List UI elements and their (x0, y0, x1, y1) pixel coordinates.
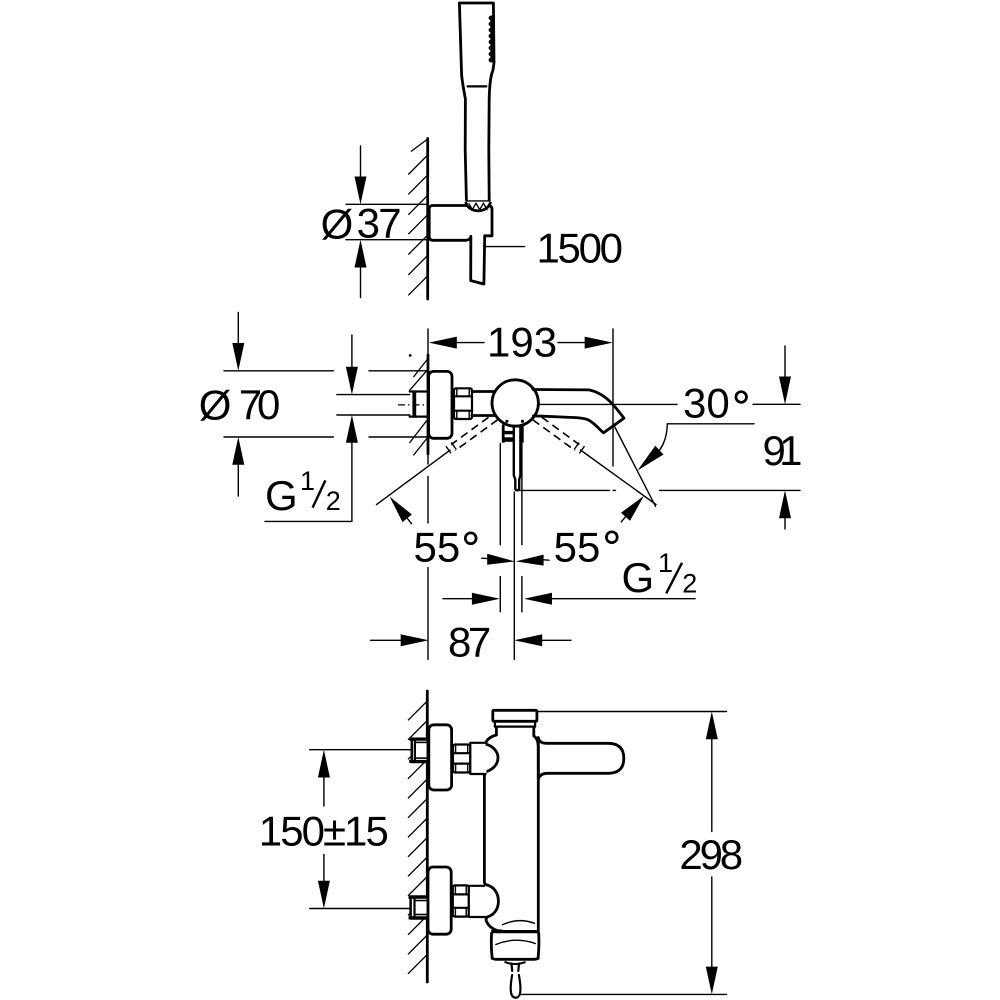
handle lever (514, 426, 521, 490)
svg-text:30: 30 (683, 380, 730, 427)
svg-text:70: 70 (239, 381, 280, 428)
lower adapter (469, 886, 487, 917)
dimension 150±15 extension lines (310, 749, 417, 751)
svg-text:1: 1 (300, 466, 315, 496)
svg-text:Ø: Ø (199, 382, 232, 429)
lower supply nut (411, 897, 428, 919)
svg-text:1500: 1500 (537, 225, 624, 272)
drip nipple (510, 964, 513, 971)
wall (top figure) (426, 139, 429, 300)
hand shower connector bulge (467, 201, 490, 212)
svg-text:G: G (265, 472, 298, 519)
svg-text:91: 91 (763, 427, 803, 474)
55-degree arc arrow (right) (621, 496, 644, 521)
svg-text:55: 55 (414, 524, 461, 571)
cartridge housing circle (492, 380, 538, 426)
55-degree reference line (right) (581, 450, 657, 505)
svg-text:2: 2 (682, 569, 697, 599)
handle axis extension line (513, 492, 515, 660)
svg-text:2: 2 (326, 486, 341, 516)
rotated handle silhouette (right, dashed) (533, 417, 580, 450)
dimension Ø70 extension lines (224, 370, 333, 372)
body shading arcs (503, 921, 535, 925)
dimension 91 arrows (784, 346, 786, 377)
dimension Ø37 extension lines (346, 203, 427, 205)
upper adapter (470, 743, 486, 774)
rotated handle silhouette (left, dashed) (451, 417, 498, 450)
outlet extension lines (499, 444, 501, 545)
connection nut (454, 388, 472, 419)
G1/2 inlet arrows (351, 335, 353, 367)
wall hatching (bottom figure) (408, 701, 427, 974)
dimension 87 (371, 639, 401, 641)
svg-text:37: 37 (357, 200, 402, 247)
upper escutcheon (429, 725, 452, 790)
dimension 91 extension lines (539, 403, 678, 405)
escutcheon (middle figure) (429, 371, 452, 438)
193 right extension line (612, 329, 614, 466)
svg-text:87: 87 (448, 619, 491, 666)
wall hatching (middle figure) (409, 359, 428, 456)
lever (side view) (538, 738, 624, 780)
svg-text:150±15: 150±15 (259, 808, 389, 855)
hand shower body (459, 3, 494, 200)
30-degree leader with arrow (667, 423, 754, 425)
svg-text:G: G (622, 554, 655, 601)
wall hatching (top figure) (408, 139, 427, 295)
G1/2 inlet extension lines (337, 394, 410, 396)
dimension 150±15 arrows (318, 750, 330, 778)
supply pipe behind wall (410, 390, 429, 392)
svg-text:193: 193 (487, 319, 557, 366)
wall extension line (193 / 87) (427, 329, 429, 356)
stray dot (409, 354, 412, 357)
svg-text:298: 298 (679, 831, 743, 878)
lower escutcheon (428, 867, 451, 934)
leader 1500 (485, 246, 525, 248)
30-degree reference line (614, 425, 656, 507)
wall (middle figure) (427, 355, 430, 454)
dimension Ø37 arrows (360, 146, 362, 177)
55-degree arc end arrows at axis (bowtie) (487, 554, 515, 565)
faucet body (side view) (484, 727, 502, 931)
dimension Ø70 arrows (237, 313, 239, 344)
svg-text:Ø: Ø (321, 201, 354, 248)
hand shower spray strip (490, 16, 495, 63)
outlet cup (491, 930, 539, 933)
upper hex nipple (453, 745, 470, 773)
upper supply nut (412, 739, 428, 762)
55-degree reference line (left) (377, 450, 451, 504)
dimension 193 (429, 337, 457, 349)
shower hose end cut (471, 281, 484, 284)
spout (533, 390, 624, 433)
hand shower inner line (468, 85, 487, 87)
55-degree arc arrow (left) (390, 497, 412, 522)
body tube (472, 390, 495, 393)
wall (bottom figure) (426, 691, 429, 982)
cartridge collar (503, 425, 522, 443)
svg-text:55: 55 (554, 524, 601, 571)
dimension 298 arrows (706, 712, 718, 740)
dimension 298 extension lines (538, 711, 727, 713)
top cap (493, 710, 537, 721)
svg-text:1: 1 (658, 548, 673, 578)
lower hex nipple (453, 885, 469, 916)
wall bracket (shower holder) (429, 206, 492, 285)
G1/2 outlet dimension arrows (443, 598, 472, 600)
